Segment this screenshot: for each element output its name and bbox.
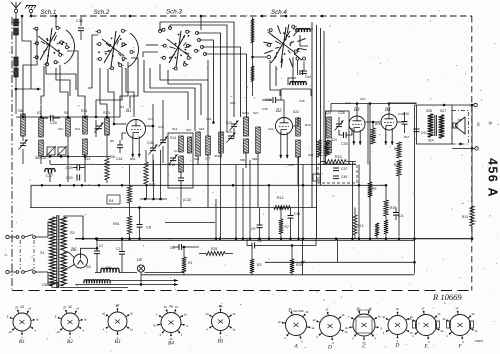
svg-text:Sch.4: Sch.4 <box>271 9 287 16</box>
svg-text:S8a: S8a <box>252 157 258 161</box>
coil S18b <box>290 82 306 85</box>
svg-text:C36: C36 <box>299 99 305 103</box>
wire transformer bottom <box>60 287 128 289</box>
wire Sch.2 to coils <box>100 68 107 117</box>
svg-text:C20: C20 <box>50 121 57 125</box>
svg-text:S19b: S19b <box>214 154 221 158</box>
wire vertical x337 <box>337 239 339 263</box>
svg-text:B3: B3 <box>115 339 121 345</box>
wire ground bus down <box>21 16 23 41</box>
svg-text:Sch.3: Sch.3 <box>166 9 182 16</box>
frame left dash-dot border <box>11 17 13 290</box>
valve base B1 <box>13 313 31 331</box>
svg-text:R19: R19 <box>390 206 396 210</box>
valve base B2 <box>61 313 79 331</box>
wire IF2 right double <box>367 104 369 165</box>
wire IF1 drops <box>146 184 148 199</box>
wire B3 B4 coupling <box>366 121 381 123</box>
trimmer C23 <box>228 135 234 137</box>
svg-text:M: M <box>476 123 481 126</box>
switch Sch.4 lower contacts <box>296 57 299 60</box>
svg-text:S23: S23 <box>325 111 331 115</box>
wire B2 plate <box>293 117 299 126</box>
svg-text:C49: C49 <box>341 175 347 179</box>
svg-text:S26: S26 <box>426 109 432 113</box>
svg-text:R25: R25 <box>211 247 217 251</box>
wire Sch.2 nested <box>108 69 114 110</box>
wire osc bottoms <box>245 153 247 168</box>
wire B3 anode top <box>356 104 358 117</box>
svg-text:S27: S27 <box>440 109 446 113</box>
svg-text:2F: 2F <box>456 306 459 310</box>
svg-text:B6: B6 <box>71 248 77 253</box>
svg-text:C2: C2 <box>116 247 120 251</box>
wire Sch.3 comb lower <box>160 64 208 136</box>
svg-text:R10: R10 <box>305 123 311 127</box>
svg-text:B4: B4 <box>168 341 174 347</box>
speaker cone <box>456 117 466 134</box>
svg-text:S13: S13 <box>94 127 100 131</box>
node ground on frame <box>30 15 33 18</box>
wire Sch.1 nested lower <box>46 64 76 90</box>
svg-text:R17: R17 <box>404 135 410 139</box>
svg-text:42: 42 <box>68 305 72 309</box>
svg-text:296-Y-V28: 296-Y-V28 <box>357 308 371 312</box>
wire ground lead <box>30 13 32 16</box>
mains terminal upper <box>6 235 9 238</box>
svg-text:R13: R13 <box>462 215 468 219</box>
svg-text:43: 43 <box>20 305 24 309</box>
coil S17 <box>206 136 211 155</box>
svg-text:R61: R61 <box>130 157 136 161</box>
svg-text:B2: B2 <box>276 109 282 114</box>
svg-text:L6: L6 <box>137 257 142 262</box>
wire Sch.1 to coils <box>23 29 37 117</box>
svg-text:C36: C36 <box>294 212 300 216</box>
coil S15b <box>188 137 192 153</box>
svg-text:C8: C8 <box>146 226 151 230</box>
svg-text:1K: 1K <box>28 307 31 311</box>
svg-text:S1: S1 <box>40 251 45 255</box>
wire B4 plate to transformer <box>389 102 417 104</box>
switch Sch.4 <box>269 29 272 32</box>
svg-text:C39: C39 <box>341 142 348 146</box>
frame top dashed border <box>30 15 472 17</box>
switch Sch.3 <box>162 28 165 31</box>
wire B2 grid top <box>283 100 285 118</box>
svg-text:S3: S3 <box>86 265 91 269</box>
svg-text:1K: 1K <box>305 310 308 314</box>
svg-text:1K: 1K <box>341 313 344 317</box>
svg-text:2F: 2F <box>396 307 399 311</box>
connector A <box>286 315 307 336</box>
trimmer C17 <box>47 147 55 155</box>
speaker terminal upper <box>452 104 474 106</box>
wire Sch.4 drops <box>270 60 280 96</box>
capacitor block C46 <box>14 57 18 66</box>
svg-text:1K: 1K <box>76 307 79 311</box>
switch mains upper <box>9 236 16 238</box>
svg-text:C40: C40 <box>398 112 404 116</box>
output transformer box <box>417 105 453 144</box>
wire B6 anode <box>81 248 98 254</box>
resistor R6 trimmer <box>95 120 97 137</box>
svg-text:2F: 2F <box>326 307 329 311</box>
wire Sch.3 comb outer <box>160 22 234 117</box>
svg-text:(C13): (C13) <box>183 198 191 202</box>
svg-text:Sch.2: Sch.2 <box>94 9 110 16</box>
trimmer C16 <box>160 139 166 141</box>
dashed box electrolytics <box>318 164 357 183</box>
switch Sch.4 spokes <box>298 48 307 50</box>
svg-text:B5: B5 <box>218 339 224 345</box>
transformer S2 S3 secondary <box>61 217 67 250</box>
wire bus y185 <box>31 184 386 186</box>
svg-text:C21: C21 <box>206 117 212 121</box>
ground terminal <box>26 5 36 7</box>
wire vertical x269 <box>268 185 270 238</box>
svg-text:S20a: S20a <box>242 111 249 115</box>
svg-text:C40: C40 <box>403 112 409 116</box>
valve base B5 <box>212 313 230 331</box>
svg-text:K0870: K0870 <box>475 339 484 343</box>
switch linkage dash-dot <box>19 240 21 269</box>
wire antenna lead <box>15 13 17 19</box>
svg-text:R 10669: R 10669 <box>432 292 462 302</box>
coil S14 <box>179 136 184 152</box>
svg-text:C41: C41 <box>421 131 427 135</box>
svg-text:B2: B2 <box>67 339 73 345</box>
svg-text:1K: 1K <box>437 312 440 316</box>
mains terminal lower <box>6 270 9 273</box>
wire bus y164 <box>50 164 356 166</box>
svg-text:S2: S2 <box>70 231 75 235</box>
wire rail y199 <box>140 198 167 200</box>
svg-text:C29: C29 <box>66 166 73 170</box>
svg-text:~: ~ <box>4 253 8 259</box>
resistor R4 network <box>107 195 120 204</box>
svg-text:1K: 1K <box>232 312 235 316</box>
wire coil top bus <box>16 116 120 118</box>
coil S19 hatched <box>252 17 254 96</box>
svg-text:D: D <box>327 345 332 351</box>
svg-text:R2: R2 <box>257 263 262 267</box>
svg-text:R4: R4 <box>109 199 113 203</box>
wire bottom bus y245 <box>262 245 316 247</box>
connector C <box>353 314 375 336</box>
wire B1 grid <box>114 123 127 125</box>
switch Sch.3 comb contacts <box>196 32 199 35</box>
trimmer C42 <box>22 136 24 141</box>
svg-text:C9: C9 <box>251 227 255 231</box>
svg-text:S7: S7 <box>37 111 42 115</box>
coil S4 heater winding <box>84 280 110 283</box>
speaker terminal lower <box>452 147 475 149</box>
wire IF1 connections <box>197 156 199 165</box>
wire B6 heater taps <box>64 251 75 258</box>
wire vertical x250 <box>249 160 251 239</box>
svg-text:C44: C44 <box>305 75 311 79</box>
capacitor C40 <box>117 144 123 146</box>
svg-text:C30: C30 <box>66 176 73 180</box>
capacitor C44 block <box>14 19 19 26</box>
svg-text:R16: R16 <box>375 122 381 126</box>
transformer core lines <box>434 115 436 136</box>
wire secondary taps <box>64 216 84 239</box>
svg-text:2F: 2F <box>15 305 18 309</box>
valve base B4 <box>161 313 181 333</box>
svg-text:C50: C50 <box>42 283 48 287</box>
svg-text:S12: S12 <box>75 127 81 131</box>
svg-text:R15: R15 <box>335 155 342 159</box>
wire vertical x216 <box>215 199 217 239</box>
wire vertical x298 <box>298 157 300 239</box>
svg-text:R13: R13 <box>358 224 364 228</box>
wire B+ right <box>471 105 473 206</box>
svg-text:S25: S25 <box>308 153 314 157</box>
wire bus y222 <box>165 222 215 224</box>
svg-text:S24: S24 <box>331 138 337 142</box>
svg-text:C41: C41 <box>116 157 123 161</box>
svg-text:C23: C23 <box>226 130 232 134</box>
resistor R9b <box>375 223 379 236</box>
resistor R61 <box>144 162 148 184</box>
svg-text:1K: 1K <box>130 312 133 316</box>
wire speaker connections <box>415 104 417 106</box>
svg-text:R12: R12 <box>277 196 284 200</box>
svg-text:E: E <box>423 344 428 350</box>
svg-text:456 A: 456 A <box>485 158 499 198</box>
svg-text:C25: C25 <box>338 111 345 115</box>
svg-text:C24: C24 <box>268 127 274 131</box>
svg-text:B1: B1 <box>19 339 25 345</box>
svg-text:2H: 2H <box>345 326 348 330</box>
transformer S1 primary <box>48 222 53 237</box>
svg-text:S14: S14 <box>172 127 178 131</box>
switch Sch.1 <box>64 30 75 64</box>
svg-text:S22: S22 <box>293 110 299 114</box>
coil S15 <box>179 156 184 172</box>
svg-text:S9: S9 <box>64 111 69 115</box>
frame right dashed border <box>471 16 473 291</box>
svg-text:C1: C1 <box>99 244 103 248</box>
connector E <box>416 315 437 336</box>
svg-text:S13: S13 <box>103 111 110 115</box>
svg-text:C17: C17 <box>174 149 180 153</box>
svg-text:S15: S15 <box>186 128 192 132</box>
resistor R20 <box>384 220 388 234</box>
svg-text:F: F <box>457 344 462 350</box>
wire Sch.4 right <box>300 35 308 46</box>
svg-text:C6: C6 <box>257 239 262 243</box>
svg-text:B1: B1 <box>126 109 132 114</box>
svg-text:C15: C15 <box>158 125 164 129</box>
svg-text:3,7 2Ω 2H5: 3,7 2Ω 2H5 <box>288 309 304 313</box>
switch Sch.2 <box>128 33 139 67</box>
coil S16 <box>196 132 201 156</box>
resistor R13 <box>317 140 321 157</box>
svg-text:S6: S6 <box>18 109 23 113</box>
svg-text:S21: S21 <box>253 111 259 115</box>
svg-text:R7: R7 <box>285 225 289 229</box>
svg-text:C47: C47 <box>46 174 53 178</box>
svg-text:R5: R5 <box>110 139 114 143</box>
coil S19b <box>219 132 224 153</box>
wire Sch.4 staircase <box>292 57 294 85</box>
wire vertical x352 <box>352 162 354 239</box>
connector D2 <box>388 316 407 335</box>
wire bus y207 <box>30 207 317 209</box>
wire vertical x236 <box>235 165 237 239</box>
svg-text:S19: S19 <box>230 101 236 105</box>
wire vertical x370 <box>369 104 371 165</box>
IF transformer S14 S15 box <box>168 133 193 188</box>
transformer core <box>56 215 58 288</box>
svg-text:A: A <box>293 344 298 350</box>
wire antenna to coil <box>15 35 17 114</box>
capacitor C45 block <box>14 28 19 35</box>
coil S18 <box>293 28 313 30</box>
svg-text:C31: C31 <box>76 19 83 23</box>
wire heater arrow 2 <box>75 284 178 286</box>
wire vertical x302 <box>302 239 304 275</box>
wire B1 plate <box>146 125 154 127</box>
capacitor C33 <box>303 62 305 70</box>
svg-text:43: 43 <box>219 305 223 309</box>
svg-text:C: C <box>362 344 366 350</box>
svg-text:C27: C27 <box>360 97 366 101</box>
connector F <box>450 315 471 336</box>
svg-text:2F: 2F <box>63 305 66 309</box>
wire bus y262 <box>265 261 415 263</box>
svg-text:2F: 2F <box>422 306 425 310</box>
coil S21b <box>256 127 261 153</box>
capacitor C19 <box>178 177 184 179</box>
svg-text:47: 47 <box>116 304 120 308</box>
svg-text:S8b: S8b <box>240 158 246 162</box>
node top line junctions <box>55 15 58 18</box>
svg-text:2H: 2H <box>153 323 156 327</box>
svg-text:M8: M8 <box>458 118 462 122</box>
valve base B3 <box>108 312 127 331</box>
connector D <box>320 316 341 337</box>
svg-text:S14: S14 <box>170 136 176 140</box>
wire chassis bus <box>75 238 472 240</box>
svg-text:D: D <box>395 343 400 349</box>
svg-text:Sch.1: Sch.1 <box>41 9 57 16</box>
trimmer C18 <box>170 157 176 159</box>
svg-text:S16: S16 <box>199 127 205 131</box>
wire comb verticals long <box>207 60 209 80</box>
svg-text:R24: R24 <box>296 263 303 267</box>
wire heater arrow 1 <box>110 280 178 282</box>
svg-text:S24: S24 <box>428 139 434 143</box>
wire vertical x359 <box>358 165 360 239</box>
switch mains lower <box>9 271 16 273</box>
wire plate supply line y103 <box>331 103 417 105</box>
wire coil bottom rail y156 <box>41 156 110 158</box>
capacitor C48 <box>313 174 320 181</box>
svg-text:C14: C14 <box>148 117 154 121</box>
wire to Sch.4 <box>253 56 268 58</box>
svg-text:R1: R1 <box>188 261 193 265</box>
svg-text:C38: C38 <box>288 163 294 167</box>
IF transformer 2 box <box>326 111 350 164</box>
wire bottom bus y274 <box>141 274 415 276</box>
shield box B2 top <box>281 88 311 90</box>
svg-text:R3: R3 <box>120 105 124 109</box>
svg-text:C37: C37 <box>341 167 347 171</box>
svg-text:S11: S11 <box>81 109 87 113</box>
wire Sch.2 nested lower <box>126 68 134 117</box>
wire L6 drop <box>140 273 142 285</box>
svg-text:S10: S10 <box>58 127 64 131</box>
wire coil bottoms <box>67 145 69 182</box>
svg-text:2F: 2F <box>164 305 167 309</box>
wire vertical x243 <box>242 168 244 239</box>
svg-text:C35: C35 <box>262 107 268 111</box>
frame bottom dashed border <box>12 290 472 292</box>
speaker dashed enclosure <box>452 111 469 145</box>
node chassis joints <box>95 237 98 240</box>
svg-text:C18: C18 <box>169 163 175 167</box>
svg-text:1K: 1K <box>175 305 178 309</box>
svg-text:C26: C26 <box>345 101 351 105</box>
antenna <box>11 2 21 8</box>
trimmer C21 <box>58 147 66 155</box>
svg-text:R9: R9 <box>372 187 376 191</box>
svg-text:4a: 4a <box>169 305 173 309</box>
wire antenna tap y89 <box>15 88 18 91</box>
svg-text:S16: S16 <box>194 157 200 161</box>
svg-text:B4: B4 <box>385 108 391 113</box>
wire vertical x303 <box>302 165 304 239</box>
svg-text:R6: R6 <box>110 155 115 159</box>
capacitor block C46b <box>14 68 18 77</box>
svg-text:R51: R51 <box>113 222 120 226</box>
wire Sch.3 left taps <box>146 44 158 46</box>
svg-text:C4: C4 <box>399 214 403 218</box>
resistor R9 <box>368 182 372 197</box>
